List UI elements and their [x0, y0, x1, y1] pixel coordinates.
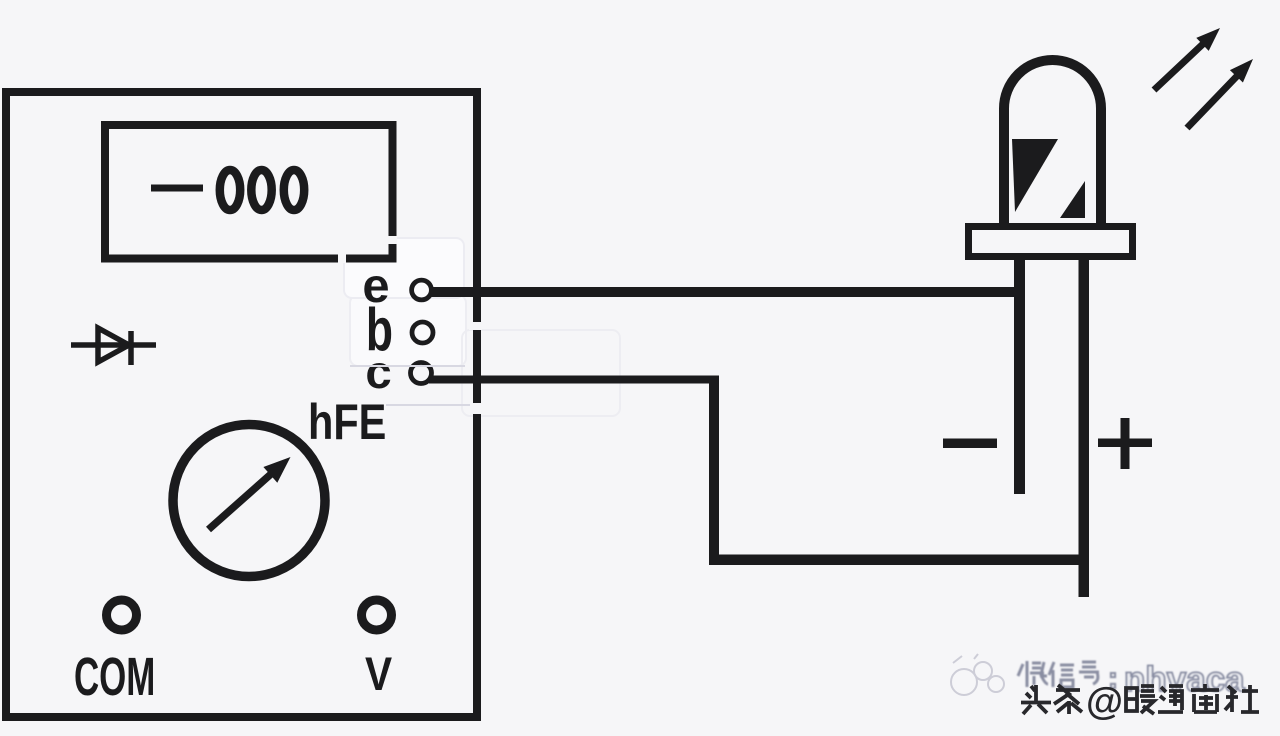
svg-text:hFE: hFE	[308, 393, 386, 450]
svg-text:nhvaca: nhvaca	[1124, 660, 1245, 699]
svg-text:@: @	[1086, 681, 1123, 723]
svg-text:c: c	[365, 347, 391, 398]
svg-text:COM: COM	[74, 646, 155, 707]
svg-text:V: V	[365, 648, 392, 700]
